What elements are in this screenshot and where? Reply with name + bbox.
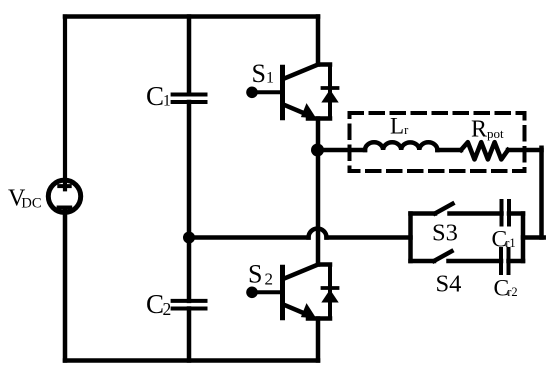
wire Cr1 to right bar <box>509 211 523 216</box>
wire resistor to right corner <box>508 148 542 153</box>
transistor S1 emitter diagonal with arrow <box>284 105 308 115</box>
transistor S2 emitter diagonal with arrow <box>284 305 308 315</box>
wire S2 emitter down to bottom rail <box>316 319 321 361</box>
switch S4 right lead <box>449 259 502 264</box>
diode D1 vertical lead <box>328 65 332 119</box>
diode D1 triangle <box>321 90 338 103</box>
transistor S2 collector diagonal <box>284 265 331 279</box>
diode D2 cathode bar <box>323 286 338 290</box>
capacitor Cr1 <box>502 201 510 225</box>
capacitor C2 <box>173 301 206 309</box>
switch network right bar <box>521 214 526 262</box>
resistor Rpot zigzag <box>461 142 508 159</box>
wire left rail lower <box>63 212 68 361</box>
wire S1 collector from top rail <box>316 17 321 65</box>
wire inductor to resistor <box>437 148 461 153</box>
node dot S1-S2 midpoint <box>311 144 324 157</box>
inductor Lr <box>365 142 437 150</box>
wire midpoint down to S2 collector <box>316 150 321 265</box>
wire left rail upper entering source <box>63 17 67 190</box>
svg-text:S4: S4 <box>436 270 462 297</box>
switch S3 blade <box>435 204 453 214</box>
diode D1 cathode bar <box>323 86 338 90</box>
switch S4 left lead <box>411 259 435 264</box>
wire middle branch upper <box>187 17 192 95</box>
diode D2 vertical lead <box>328 265 332 319</box>
wire right vertical down <box>539 148 544 238</box>
voltage source VDC circle <box>48 180 80 212</box>
wire S1 emitter down to node <box>316 119 321 151</box>
voltage source minus sign <box>59 206 70 210</box>
wire Cr2 to right bar <box>509 259 524 264</box>
transistor S1 gate bar <box>280 67 285 117</box>
dashed box resonant tank boundary <box>350 113 525 171</box>
wire hop over vertical branch <box>309 229 327 238</box>
wire node to inductor <box>318 148 366 153</box>
switch S4 blade <box>434 251 452 261</box>
capacitor C1 <box>173 95 206 103</box>
wire into switch network from right <box>523 235 544 240</box>
node junction dot at capacitor midpoint <box>183 232 195 244</box>
transistor S2 emitter horizontal <box>308 316 330 321</box>
transistor S1 collector diagonal <box>284 65 331 79</box>
svg-text:S3: S3 <box>432 220 458 247</box>
diode D2 triangle <box>321 290 338 303</box>
switch S3 right lead <box>450 211 502 216</box>
transistor S2 gate lead <box>252 290 283 294</box>
transistor S1 emitter horizontal <box>308 116 330 121</box>
transistor S1 gate lead <box>252 90 283 94</box>
transistor S2 gate bar <box>280 267 285 317</box>
transistor S2 gate terminal dot <box>246 287 258 299</box>
wire node horizontal left segment <box>189 235 309 240</box>
transistor S1 emitter arrowhead <box>301 103 316 118</box>
wire bottom rail <box>65 358 318 363</box>
switch S3 left lead <box>411 211 436 216</box>
wire node horizontal right segment <box>327 235 411 240</box>
wire middle branch middle <box>187 102 192 301</box>
voltage source plus crossbar <box>59 184 69 188</box>
transistor S2 emitter arrowhead <box>301 303 316 318</box>
switch network left bar <box>408 214 413 262</box>
wire middle branch lower <box>187 309 192 361</box>
capacitor Cr2 <box>501 249 509 273</box>
wire top rail <box>65 14 318 19</box>
transistor S1 gate terminal dot <box>246 87 258 99</box>
